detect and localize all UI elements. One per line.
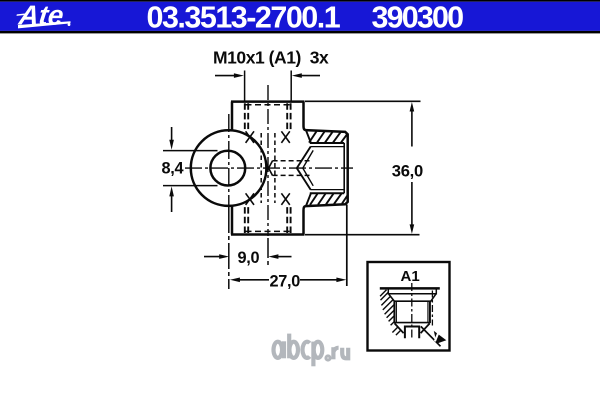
M10 dim arrow left bbox=[215, 73, 244, 78]
right boss hatch band top bbox=[306, 131, 347, 143]
bottom hole chamfer dashed line bbox=[246, 230, 291, 232]
A1 insert top line bbox=[380, 287, 440, 290]
header bottom black strip bbox=[0, 31, 600, 34]
dim 9,0 arrow left bbox=[204, 254, 229, 259]
ATE logo underline swoosh bbox=[18, 21, 71, 28]
dim 36,0 extension line bottom bbox=[305, 234, 420, 236]
top hole thread runout X left bbox=[246, 131, 254, 143]
dim 8,4 extension line top bbox=[163, 150, 218, 152]
A1 spout bbox=[405, 327, 419, 339]
top hole thread dashed lines bbox=[245, 103, 291, 131]
watermark abcp.ru bbox=[274, 334, 349, 367]
ATE logo text bbox=[16, 0, 65, 31]
banjo outer circle bbox=[191, 130, 267, 206]
right boss hatch band bottom bbox=[306, 194, 347, 206]
right boss outline top bbox=[306, 130, 348, 206]
A1 view arrow head bbox=[421, 326, 441, 346]
svg-text:36,0: 36,0 bbox=[392, 161, 423, 180]
body right edge upper with fillet to boss bbox=[304, 102, 306, 131]
svg-text:390300: 390300 bbox=[372, 0, 464, 34]
body right edge lower with fillet to boss bbox=[304, 206, 306, 234]
body left edge lower bbox=[231, 206, 234, 235]
A1 seat cone V bbox=[395, 323, 430, 333]
A1 body bottom line bbox=[394, 322, 430, 324]
vertical centerline of banjo circle / extension for 9,0 27,0 bbox=[228, 114, 230, 207]
dim 8,4 arrow bottom bbox=[169, 186, 174, 212]
dim 8,4 extension line bottom bbox=[163, 185, 218, 187]
right port thread major lines bbox=[310, 143, 344, 193]
dim 27,0 right extension line bbox=[346, 205, 348, 287]
svg-text:A1: A1 bbox=[401, 268, 420, 285]
A1 flange taper sides bbox=[389, 294, 436, 301]
top hole thread runout X right bbox=[281, 131, 289, 143]
svg-text:8,4: 8,4 bbox=[162, 159, 184, 177]
right port bore end face line bbox=[343, 143, 345, 193]
banjo inner circle (8,4 hole) bbox=[210, 151, 245, 186]
M10 extension line left bbox=[244, 71, 246, 102]
svg-text:27,0: 27,0 bbox=[270, 273, 301, 291]
A1 body sides bbox=[394, 301, 430, 323]
bottom hole thread runout X left bbox=[246, 193, 254, 205]
bottom hole thread runout X right bbox=[281, 193, 289, 205]
right port countersink cone outer bbox=[297, 147, 311, 190]
header top black strip bbox=[0, 0, 600, 2]
A1 centerline bbox=[411, 283, 413, 339]
A1 sight dashed line bbox=[431, 291, 433, 326]
A1 thread minor lines bbox=[396, 302, 428, 322]
M10 dim arrow right bbox=[292, 73, 320, 78]
right port minor diameter dashed lines bbox=[273, 161, 310, 176]
A1 flange bbox=[388, 289, 436, 293]
body outline top edge bbox=[231, 100, 305, 103]
dim 36,0 line lower with arrow bbox=[410, 182, 415, 234]
svg-text:9,0: 9,0 bbox=[238, 249, 260, 267]
dim 36,0 extension line top bbox=[305, 100, 421, 102]
A1 detail box bbox=[368, 262, 450, 351]
svg-text:M10x1 (A1) 3x: M10x1 (A1) 3x bbox=[213, 48, 329, 68]
body left edge upper bbox=[231, 102, 234, 131]
svg-text:03.3513-2700.1: 03.3513-2700.1 bbox=[147, 0, 341, 34]
top hole chamfer dashed line bbox=[246, 104, 291, 106]
dim 9,0 arrow right bbox=[268, 254, 291, 259]
dim 8,4 arrow top bbox=[169, 127, 174, 150]
right port thread minor lines bbox=[310, 147, 344, 190]
right port countersink cone inner bbox=[303, 150, 313, 185]
bottom hole thread dashed lines bbox=[245, 205, 291, 233]
pilot hole minor dashed lines through centre bbox=[261, 133, 275, 203]
M10 extension line right bbox=[290, 71, 292, 102]
right port drill cone tip at centre bbox=[269, 161, 273, 176]
dim 27,0 line with arrows bbox=[230, 278, 347, 283]
vertical centerline of top/bottom holes bbox=[267, 85, 269, 236]
header blue bar bbox=[0, 2, 600, 31]
dim 36,0 line upper with arrow bbox=[410, 102, 415, 147]
body outline bottom edge bbox=[231, 233, 305, 236]
A1 hatch left bbox=[380, 290, 401, 335]
horizontal centerline bbox=[185, 167, 353, 169]
